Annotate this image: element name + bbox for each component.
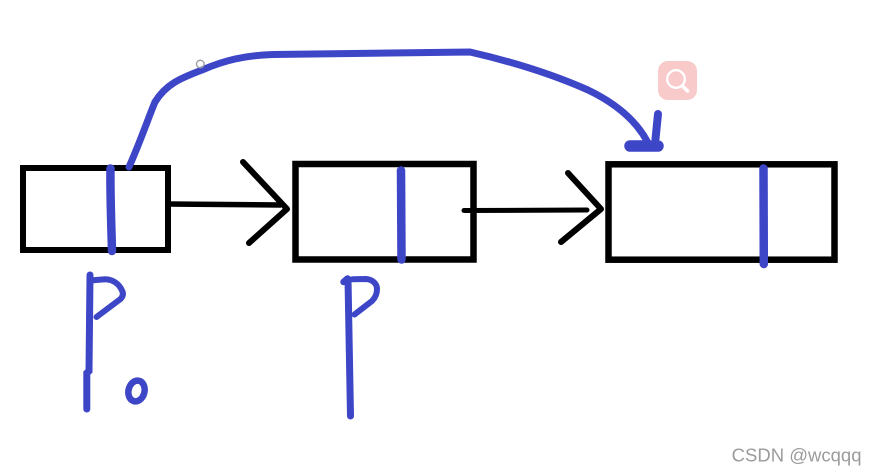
search icon glass bbox=[667, 70, 685, 88]
node N2 box bbox=[296, 164, 474, 260]
arrow A2 shaft bbox=[464, 208, 587, 214]
label P0 stem bbox=[87, 275, 90, 409]
label P0 bowl bbox=[91, 279, 123, 317]
node N1 box bbox=[23, 168, 168, 250]
cursor circle artifact bbox=[197, 60, 205, 68]
node N1 divider bbox=[110, 169, 112, 252]
node N3 box bbox=[609, 164, 835, 259]
node N3 divider bbox=[759, 169, 768, 265]
arrow A2 head bbox=[561, 173, 601, 242]
curved pointer wire bbox=[129, 52, 647, 167]
label P stem nub bbox=[344, 279, 348, 283]
arrow A1 shaft bbox=[166, 204, 281, 205]
search icon tile bbox=[658, 61, 697, 100]
svg-text:CSDN @wcqqq: CSDN @wcqqq bbox=[732, 445, 862, 466]
label P stem bbox=[348, 279, 351, 416]
node N2 divider bbox=[397, 171, 406, 260]
curved pointer arrowhead barb bottom bbox=[630, 140, 658, 152]
label P0 subscript 0 bbox=[126, 379, 147, 403]
label P bowl bbox=[353, 279, 378, 315]
arrow A1 head bbox=[243, 162, 287, 243]
curved pointer arrowhead barb right bbox=[656, 114, 659, 139]
search icon handle bbox=[683, 87, 688, 92]
